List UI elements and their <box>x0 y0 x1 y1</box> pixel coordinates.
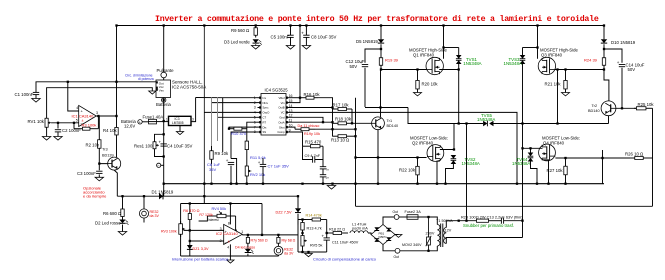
title text <box>155 14 599 24</box>
wire D5 top <box>380 26 382 40</box>
relay RE1 coil <box>139 209 159 218</box>
node fuse2 out <box>427 216 429 218</box>
wire lower battery-minus run <box>117 195 298 197</box>
svg-text:CT: CT <box>263 116 267 120</box>
svg-text:RT: RT <box>263 120 267 124</box>
wire C2 stub <box>57 123 59 129</box>
svg-text:R22 10k: R22 10k <box>399 168 416 173</box>
transformer T1 <box>426 219 454 247</box>
wire minus row <box>190 240 224 242</box>
svg-text:Tr2: Tr2 <box>592 104 598 108</box>
wire IC3 ground leg <box>179 126 181 132</box>
wire R6 col lower <box>189 230 191 256</box>
wire Q4 gate row <box>555 157 630 159</box>
wire pin12 run <box>290 117 324 122</box>
wire Q2 source <box>437 161 440 184</box>
svg-text:Q1 IRF840: Q1 IRF840 <box>413 53 435 58</box>
resistor R24 <box>584 54 606 70</box>
node led column tap <box>121 195 123 197</box>
wire TVS2 bottom <box>446 164 454 184</box>
thermistor Res1 <box>134 142 159 150</box>
svg-text:Out: Out <box>393 210 399 214</box>
op-amp IC2 cutoff <box>216 221 243 249</box>
wire c10 dn <box>322 177 324 184</box>
ground below C2 <box>54 137 62 141</box>
svg-text:RV1 10k: RV1 10k <box>28 119 45 124</box>
TVS diode TVS4 <box>512 153 533 166</box>
svg-text:IC2 CA3140: IC2 CA3140 <box>216 231 239 236</box>
fuse Fuse1 <box>143 114 164 124</box>
svg-text:Tr3: Tr3 <box>102 147 108 151</box>
node outB <box>331 106 333 108</box>
TVS diode TVS3 <box>504 55 526 66</box>
ground at hall run <box>149 91 156 94</box>
node hall-out junctions <box>67 81 118 83</box>
node pin10 r13 join <box>354 128 356 159</box>
resistor R9 on bus <box>210 146 229 164</box>
wire TVS4 bottom <box>531 162 538 184</box>
svg-text:R19 39: R19 39 <box>385 58 399 63</box>
wire pin5 run <box>218 116 258 118</box>
svg-text:+: + <box>258 160 261 165</box>
wire C3 stub <box>98 164 100 171</box>
terminal battery negative <box>157 163 161 168</box>
svg-text:Q3 IRF840: Q3 IRF840 <box>541 53 563 58</box>
svg-text:Snubber per primario trasf.: Snubber per primario trasf. <box>463 223 514 228</box>
wire battery column down <box>163 121 165 196</box>
ground below C3 <box>95 177 103 181</box>
wire secondary top <box>446 221 458 228</box>
node base row <box>351 122 353 124</box>
capacitor C14 <box>617 60 645 72</box>
wire C8 dn <box>305 37 307 45</box>
ground rv5 <box>305 254 313 257</box>
svg-text:DZ2 7,5V: DZ2 7,5V <box>276 211 293 215</box>
wire bridge top out <box>383 217 394 225</box>
svg-text:RV4 50k: RV4 50k <box>212 207 227 211</box>
svg-text:C1 100nF: C1 100nF <box>15 92 34 97</box>
svg-text:Res1 100: Res1 100 <box>134 143 153 148</box>
wire dz2 col <box>297 196 299 208</box>
wire led column <box>122 196 124 206</box>
wire R2 to Tr3 base <box>99 150 107 164</box>
svg-text:D3 Led verde: D3 Led verde <box>224 39 250 44</box>
wire node B column <box>522 64 524 238</box>
wire RV1 to ground <box>46 131 48 137</box>
resistor R15b pin10 <box>295 128 320 136</box>
svg-text:4: 4 <box>227 245 229 249</box>
mosfet Q3 high side <box>538 48 578 75</box>
TVS diode TVS1 <box>456 55 482 66</box>
resistor R6led <box>103 206 124 220</box>
svg-text:C4 10uF 35V: C4 10uF 35V <box>167 143 192 148</box>
svg-text:NInv: NInv <box>263 101 269 105</box>
svg-text:R24 39: R24 39 <box>584 58 598 63</box>
wire C7 legs <box>262 158 264 164</box>
svg-text:5: 5 <box>76 118 78 122</box>
wire relay bottom stub <box>143 218 145 222</box>
svg-text:R20 10k: R20 10k <box>422 82 439 87</box>
wire base row <box>352 122 372 124</box>
svg-text:R14 470k: R14 470k <box>306 214 322 218</box>
capacitor C5 <box>271 34 294 39</box>
svg-text:R23 100Ω 2W C13 2,2uF 63V (fil: R23 100Ω 2W C13 2,2uF 63V (film) <box>461 214 523 219</box>
terminal batteria plus-side of hall <box>156 98 171 107</box>
wire Tr3 emitter <box>114 170 117 196</box>
wire pin10 stub <box>290 127 296 129</box>
resistor R23 snubber <box>459 219 496 222</box>
mosfet Q2 low side <box>410 136 448 162</box>
svg-text:e da riempire: e da riempire <box>83 194 107 199</box>
capacitor C12 <box>346 59 369 69</box>
capacitor C8 bulk <box>301 31 336 40</box>
wire C2 to ground <box>57 132 59 136</box>
node op-amp output <box>97 115 99 117</box>
svg-text:SS: SS <box>263 130 267 134</box>
svg-text:Rly 68 Ω: Rly 68 Ω <box>282 239 296 243</box>
svg-text:1N5348A: 1N5348A <box>504 61 522 66</box>
wire TVS3 link <box>523 47 538 49</box>
svg-text:3: 3 <box>96 111 98 115</box>
zener DZ1 <box>187 245 209 251</box>
varistor MOV2 <box>402 217 431 251</box>
node pin12 join <box>322 121 334 130</box>
relay RE2 coil <box>274 246 294 255</box>
svg-text:C7 1uF 35V: C7 1uF 35V <box>268 164 290 169</box>
wire pin13 run <box>290 112 518 183</box>
wire dz2 down <box>297 214 299 219</box>
potentiometer RV2 <box>245 162 265 180</box>
ground below RV1 <box>42 137 50 141</box>
wire feedback left leg <box>73 123 75 129</box>
mosfet Q4 low side <box>539 136 581 161</box>
svg-text:C8 10uF 35V: C8 10uF 35V <box>311 34 336 39</box>
svg-text:Pulsante: Pulsante <box>157 68 175 73</box>
svg-text:RV5 5k: RV5 5k <box>310 244 322 248</box>
svg-text:D1 1N5819: D1 1N5819 <box>152 189 174 194</box>
wire Q1 gate row <box>381 69 426 71</box>
svg-text:+: + <box>226 158 229 163</box>
capacitor C8 <box>320 167 329 172</box>
gray bus a <box>203 26 205 197</box>
svg-text:da 3V: da 3V <box>150 214 160 218</box>
node mid bend <box>0 0 1 1</box>
resistor R11 <box>245 129 266 162</box>
capacitor C7 <box>258 160 289 169</box>
bridge rectifier PB1 <box>371 225 395 245</box>
wire top +12V rail <box>116 25 604 27</box>
svg-text:D10 1N5819: D10 1N5819 <box>611 40 636 45</box>
svg-text:+: + <box>301 31 304 36</box>
wire cutoff stub1 <box>203 196 205 203</box>
resistor R25 <box>634 102 654 110</box>
svg-text:1N5348A: 1N5348A <box>462 161 480 166</box>
wire plus row <box>184 229 224 231</box>
ground bridge right <box>395 235 402 238</box>
svg-text:+: + <box>322 233 325 238</box>
svg-text:C11 10uF 450V: C11 10uF 450V <box>332 241 359 245</box>
wire C8 legs <box>305 26 307 36</box>
mosfet Q1 high side <box>409 48 447 75</box>
wire RV2 to rail <box>246 180 248 184</box>
svg-text:1N5348A: 1N5348A <box>477 117 495 122</box>
wire Vcc drop from rail <box>290 26 301 103</box>
blue note compensazione <box>313 257 377 262</box>
wire comp loop right column <box>322 160 324 167</box>
ground below C5 <box>286 46 294 50</box>
node A dots <box>458 68 460 124</box>
resistor R13g <box>331 135 352 143</box>
wire pin16 to R16 <box>290 97 303 99</box>
wire Tr2 collector <box>604 70 609 101</box>
wire Q3 gate row <box>542 69 604 71</box>
svg-text:D2 Led rosso: D2 Led rosso <box>95 221 121 226</box>
wire gnd stub rv5 <box>308 252 310 254</box>
node q2 gate r22 <box>377 156 419 158</box>
svg-text:R18 22 Ω: R18 22 Ω <box>329 228 345 232</box>
wire dz2col to bottom <box>297 220 299 253</box>
wire fuse to IC3 input <box>157 121 169 123</box>
node tr1 col <box>379 106 381 108</box>
capacitor C4 <box>159 139 193 148</box>
svg-text:R25 10k: R25 10k <box>638 102 655 107</box>
svg-text:OutA: OutA <box>278 120 284 124</box>
blue note interruzione <box>172 256 229 261</box>
wire Q3 drain <box>537 26 539 59</box>
wire TVS3 column <box>522 48 524 56</box>
wire RV1 wiper to op-amp inverting input <box>51 122 79 124</box>
svg-text:R18 10k: R18 10k <box>335 116 352 121</box>
junction dots on top rail <box>115 24 605 26</box>
ground below IC3 <box>176 132 183 135</box>
resistor R4 <box>103 116 118 157</box>
wire IC3 out to pin1 row <box>196 97 258 99</box>
wire C14 branch <box>604 49 622 63</box>
svg-text:KBPC: KBPC <box>379 235 388 239</box>
rail junction dots <box>163 183 567 185</box>
svg-text:Interruzione per batteria scar: Interruzione per batteria scarica <box>172 256 229 261</box>
node C4 loop top <box>163 133 165 135</box>
wire D5 to R19 <box>380 44 382 53</box>
wire C3 ground leg <box>98 174 100 177</box>
diode D10 <box>601 39 636 45</box>
capacitor C3 <box>77 171 103 176</box>
svg-text:2: 2 <box>220 239 222 243</box>
svg-text:+: + <box>617 60 620 65</box>
svg-text:LM7805: LM7805 <box>172 121 184 125</box>
terminal pulsante <box>157 68 175 78</box>
svg-text:Vss: Vss <box>159 88 165 92</box>
resistor R20 <box>416 70 439 93</box>
terminal battery positive <box>121 119 142 129</box>
potentiometer RV1 <box>28 115 52 132</box>
wire output row <box>242 234 298 236</box>
svg-text:1: 1 <box>166 117 168 121</box>
node fuse output <box>163 120 165 122</box>
resistor R21 <box>545 70 568 93</box>
svg-text:Inverter a commutazione e pont: Inverter a commutazione e ponte intero 5… <box>155 14 599 24</box>
trimmer RV4 <box>199 207 235 222</box>
zener DZ2 <box>276 208 302 214</box>
wire node A upper <box>458 64 460 124</box>
wire C9 wiring <box>303 146 313 159</box>
svg-text:12V: 12V <box>445 229 452 233</box>
node A lower top <box>465 122 467 124</box>
wire hall-out signal run <box>36 82 156 93</box>
wire driver mid row <box>365 107 408 109</box>
wire relay to bottom <box>278 254 280 257</box>
hall sensor IC2 ACS758 box <box>156 80 206 98</box>
node box bottom <box>301 251 309 253</box>
wire opamp vplus col <box>229 204 231 225</box>
svg-text:8: 8 <box>228 221 230 225</box>
wire pin11 OutA run <box>290 121 334 123</box>
svg-text:Sync: Sync <box>263 106 270 110</box>
node output row dots <box>247 234 280 236</box>
gray bus c <box>217 98 219 142</box>
wire TVS5 row <box>459 123 483 125</box>
diode D1 <box>152 189 174 199</box>
wire box317 top <box>297 220 299 225</box>
node bootstrap left <box>380 48 382 50</box>
wire TVS4 wiring <box>530 148 532 152</box>
resistor R16 pin16 <box>302 92 320 99</box>
transistor Tr1 <box>372 117 399 130</box>
wire rv4 left leg <box>199 216 208 221</box>
resistor R17 <box>333 102 353 110</box>
red note opzionale <box>83 185 107 198</box>
wire long mid column <box>355 98 357 207</box>
wire C5 dn <box>290 37 292 45</box>
wire Q1 drain <box>443 26 445 59</box>
resistor R6 cutoff <box>183 204 199 231</box>
ground below R21 <box>562 93 570 96</box>
wire Res1 loop <box>155 134 164 141</box>
svg-text:1n: 1n <box>326 175 330 179</box>
node R10 left <box>228 128 230 130</box>
svg-text:MOV2 340V: MOV2 340V <box>402 243 422 247</box>
resistor R2 <box>86 138 102 150</box>
svg-text:R17 10k: R17 10k <box>333 102 350 107</box>
wire opamp gnd stem <box>229 256 231 260</box>
TVS diode TVS2 <box>451 155 480 166</box>
svg-text:RV3 100k: RV3 100k <box>161 229 177 233</box>
node rv4 fb <box>234 230 236 232</box>
svg-text:R21 10k: R21 10k <box>545 82 562 87</box>
wire pin1 column down <box>222 98 224 152</box>
wire C14 lower <box>621 68 623 109</box>
wire C12 branch <box>365 49 381 63</box>
svg-text:R13 10 Ω: R13 10 Ω <box>331 138 350 143</box>
svg-text:Q4 IRF840: Q4 IRF840 <box>543 141 565 146</box>
wire c8 to c10 <box>322 169 324 175</box>
resistor R26 <box>625 151 653 159</box>
voltage regulator IC3 LM7805 <box>166 116 194 125</box>
ground on rail <box>327 186 335 190</box>
capacitor C13 snubber <box>501 218 503 224</box>
wire R25 column <box>652 108 654 158</box>
wire led gnd stub <box>122 225 124 232</box>
svg-text:1N5348A: 1N5348A <box>463 61 481 66</box>
svg-text:R10 470: R10 470 <box>231 131 247 136</box>
resistor R27 <box>547 158 568 184</box>
wire cutoff box top <box>181 203 262 205</box>
node C4 loop bottom <box>163 155 165 157</box>
wire L1 to bridge <box>368 233 371 235</box>
resistor R5 560 <box>231 26 257 38</box>
wire feedback right leg <box>97 116 99 129</box>
node relay tap <box>143 195 145 197</box>
svg-text:R2 10k: R2 10k <box>86 143 100 148</box>
wire TVS1 column <box>458 48 460 56</box>
svg-text:R9 10k: R9 10k <box>215 151 229 156</box>
svg-text:DZ1 3,3V: DZ1 3,3V <box>193 247 210 251</box>
capacitor C1 <box>15 92 40 97</box>
wire C1 to ground <box>35 95 37 99</box>
wire C7 lower leg <box>262 167 264 184</box>
svg-text:Q2 IRF840: Q2 IRF840 <box>412 141 434 146</box>
svg-text:1: 1 <box>241 230 243 234</box>
wire Q2 gate row <box>356 157 427 159</box>
snubber labels <box>461 214 523 228</box>
red note da11 <box>298 124 320 128</box>
svg-text:OutB: OutB <box>278 106 284 110</box>
svg-text:Shut: Shut <box>279 125 285 129</box>
resistor R18b <box>333 116 353 125</box>
wire D10 top <box>603 26 605 40</box>
wire op-amp output <box>96 115 116 117</box>
wire TVS5 row right <box>494 123 609 125</box>
ground below R20 <box>414 93 422 96</box>
wire Q3 source col <box>557 70 559 124</box>
wire R2 feed <box>98 116 100 138</box>
wire rv5 bottom <box>302 249 304 253</box>
node tr2 col <box>621 107 623 109</box>
wire Tr2 emitter <box>608 116 610 124</box>
wire Tr1 emitter <box>377 130 379 184</box>
wire right col of box <box>326 220 328 238</box>
wire pin14 OutB long run <box>290 107 333 109</box>
transistor Tr3 <box>102 147 121 170</box>
svg-text:D5 1N5819: D5 1N5819 <box>356 39 378 44</box>
node bootstrap right <box>603 48 605 50</box>
svg-text:50V: 50V <box>628 67 636 72</box>
resistor R22 <box>399 158 419 184</box>
wire TVS1 link <box>444 47 459 49</box>
ground cutoff opamp <box>227 260 234 263</box>
wire Q4 drain row <box>523 147 543 149</box>
resistor R18o <box>327 228 348 235</box>
wire rail to R4 column <box>116 26 118 117</box>
wire pin4 run <box>204 111 257 113</box>
node snubber left <box>458 220 468 222</box>
wire Q4 source <box>543 160 549 184</box>
capacitor C9 <box>305 154 321 163</box>
wire D10 to R24 <box>603 44 605 53</box>
svg-text:Out: Out <box>394 255 400 259</box>
wire op-amp noninverting feed <box>68 82 79 111</box>
svg-text:BD139: BD139 <box>102 154 114 158</box>
blue note limitazione <box>125 73 154 81</box>
wire D3 gnd stub <box>255 44 257 45</box>
svg-text:Tr1: Tr1 <box>387 119 393 123</box>
wire led d4 bottom <box>247 254 249 256</box>
wire extra drop <box>231 159 237 184</box>
resistor R7y <box>246 235 268 249</box>
wire battery to fuse <box>142 121 148 123</box>
wire snubber mid <box>496 220 501 222</box>
gray bus b <box>211 98 213 184</box>
